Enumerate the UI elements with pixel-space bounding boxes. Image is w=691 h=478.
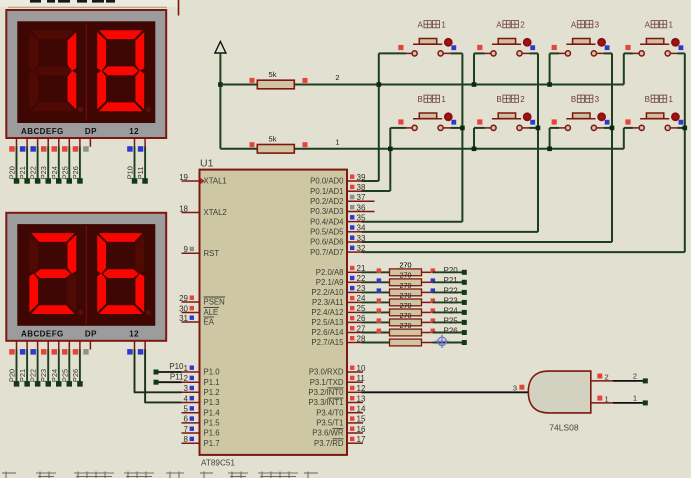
svg-text:2: 2 xyxy=(633,371,637,380)
terminal P22 under display DS1 xyxy=(35,178,41,184)
terminal P20 ladder xyxy=(462,270,467,275)
terminal P24 under display DS2 xyxy=(56,381,62,387)
pin state marker of button SW-B1 xyxy=(398,119,403,124)
wire resistor R7 to terminal xyxy=(433,311,463,313)
resistor R10 270 ohm xyxy=(390,339,433,346)
actuator marker of button SW-A2 xyxy=(523,38,535,50)
actuator marker of button SW-B2 xyxy=(523,112,535,124)
svg-text:P0.0/AD0: P0.0/AD0 xyxy=(310,177,344,186)
svg-text:1: 1 xyxy=(441,20,446,29)
svg-text:11: 11 xyxy=(357,374,366,383)
push button SW-B1 symbol xyxy=(405,113,452,131)
wire B1 left contact to row B xyxy=(390,127,405,129)
label of button SW-A3 xyxy=(571,20,600,29)
junction row B / B2 left xyxy=(472,147,477,152)
wire display DS2 segment C to terminal P22 xyxy=(37,349,39,382)
terminal P11 at U1 xyxy=(154,380,159,385)
svg-text:P3.3/INT1: P3.3/INT1 xyxy=(308,398,343,407)
svg-text:P1.4: P1.4 xyxy=(204,408,221,417)
terminal P21 under display DS1 xyxy=(24,178,30,184)
wire row A (net 2) horizontal xyxy=(220,84,623,86)
wire A1 left contact to row A xyxy=(379,52,406,54)
svg-text:P22: P22 xyxy=(29,369,38,382)
terminal P24 ladder xyxy=(462,310,467,315)
wire display DS2 segment A to terminal P20 xyxy=(16,349,18,382)
cropped caption text at bottom edge xyxy=(2,472,318,478)
junction column 4 right / row B button xyxy=(683,126,688,131)
resistor R7 270 ohm xyxy=(390,309,433,316)
marker squares of R7 xyxy=(377,308,436,313)
IC U1 AT89C51 body xyxy=(200,170,348,455)
svg-text:12: 12 xyxy=(129,330,139,339)
display DS1 digit right (8) xyxy=(97,30,144,111)
svg-text:P0.2/AD2: P0.2/AD2 xyxy=(310,197,343,206)
svg-text:P22: P22 xyxy=(444,286,459,295)
svg-text:1: 1 xyxy=(633,393,637,402)
terminal P26 under display DS2 xyxy=(77,381,83,387)
svg-text:270: 270 xyxy=(400,291,412,300)
wire resistor R5 to terminal xyxy=(433,291,463,293)
svg-text:P25: P25 xyxy=(60,369,69,382)
svg-text:P26: P26 xyxy=(71,166,80,179)
svg-text:2: 2 xyxy=(520,95,525,104)
marker and number of gate pin 1 xyxy=(597,395,608,404)
pin state marker of button SW-B3 xyxy=(552,119,557,124)
terminal P10 at U1 xyxy=(154,370,159,375)
wire to U1 pin 39 xyxy=(362,180,379,182)
U1 left pin names xyxy=(204,177,227,448)
terminal P23 under display DS2 xyxy=(46,381,52,387)
label of button SW-A1 xyxy=(418,20,447,29)
svg-text:P2.4/A12: P2.4/A12 xyxy=(311,308,343,317)
lighter band at top-left xyxy=(0,0,178,7)
wire column 3 right contacts to U1 P0.6 xyxy=(604,52,612,54)
svg-text:P22: P22 xyxy=(29,166,38,179)
svg-text:P1.1: P1.1 xyxy=(204,378,220,387)
power symbol VCC arrow xyxy=(215,42,226,54)
junction row A / A3 left xyxy=(547,82,552,87)
svg-text:XTAL1: XTAL1 xyxy=(204,177,227,186)
svg-text:7: 7 xyxy=(184,425,189,434)
pin state marker of button SW-A1 xyxy=(398,45,403,50)
wire gate pin 2 to terminal net 2 xyxy=(613,380,643,382)
display DS2 decimal point dots xyxy=(78,310,151,315)
svg-text:1: 1 xyxy=(441,95,446,104)
gate input pin 2 stub xyxy=(591,380,613,382)
svg-text:P3.7/RD: P3.7/RD xyxy=(314,439,344,448)
display DS2 segment letter labels xyxy=(21,330,139,339)
push button SW-B4 symbol xyxy=(632,113,679,131)
display DS2 digit divider xyxy=(85,226,87,324)
wire U1 pin 28 to resistor R10 xyxy=(362,342,390,344)
marker squares of R8 xyxy=(377,318,436,323)
svg-text:P0.7/AD7: P0.7/AD7 xyxy=(310,248,343,257)
svg-text:P1.0: P1.0 xyxy=(204,368,221,377)
svg-text:P3.1/TXD: P3.1/TXD xyxy=(310,378,344,387)
pin state marker of button SW-A2 xyxy=(477,45,482,50)
junction row B / column 1 (pin 38 branch) xyxy=(388,147,393,152)
resistor R2 5k on row B xyxy=(250,135,308,154)
svg-text:P3.5/T1: P3.5/T1 xyxy=(316,419,343,428)
wire column 3 to chip pin xyxy=(362,241,613,243)
svg-text:P1.2: P1.2 xyxy=(204,388,220,397)
svg-text:2: 2 xyxy=(605,373,609,382)
wire gate pin 1 to terminal net 1 xyxy=(613,402,643,404)
label of button SW-B3 xyxy=(571,95,600,104)
wire column 4 to chip pin xyxy=(362,251,685,253)
display DS1 pin stubs and state markers xyxy=(9,138,145,152)
wire U1 pin 26 to resistor R8 xyxy=(362,321,390,323)
svg-text:P1.5: P1.5 xyxy=(204,419,221,428)
svg-text:P23: P23 xyxy=(444,296,459,305)
svg-text:B: B xyxy=(645,95,650,104)
push button SW-A2 symbol xyxy=(484,39,531,57)
actuator marker of button SW-B1 xyxy=(444,112,456,124)
svg-text:A: A xyxy=(418,20,424,29)
junction VCC / row A xyxy=(218,82,223,87)
wire A2 left contact to row A xyxy=(474,52,485,54)
pin state marker of button SW-A3 xyxy=(552,45,557,50)
wire display DS1 segment F to terminal P25 xyxy=(68,147,70,180)
svg-text:19: 19 xyxy=(179,173,188,182)
svg-text:34: 34 xyxy=(357,224,366,233)
svg-text:3: 3 xyxy=(513,384,517,393)
resistor R9 270 ohm xyxy=(390,329,433,336)
svg-text:XTAL2: XTAL2 xyxy=(204,208,227,217)
svg-text:3: 3 xyxy=(595,95,600,104)
svg-text:P0.3/AD3: P0.3/AD3 xyxy=(310,207,343,216)
wire display DS1 pin 2 to terminal P11 xyxy=(144,147,146,180)
wire display 2 pin 1 to U1 P1.2 xyxy=(134,349,136,392)
terminal P22 ladder xyxy=(462,290,467,295)
svg-text:6: 6 xyxy=(184,415,189,424)
faint horizontal artifact line above display 1 xyxy=(8,6,167,8)
svg-text:P1.6: P1.6 xyxy=(204,429,220,438)
svg-text:1: 1 xyxy=(668,20,673,29)
wire column 2 to chip pin xyxy=(362,231,539,233)
svg-text:P3.0/RXD: P3.0/RXD xyxy=(309,368,344,377)
svg-text:37: 37 xyxy=(357,193,366,202)
svg-text:P3.6/WR: P3.6/WR xyxy=(312,429,344,438)
terminal P10 under display DS1 xyxy=(132,178,138,184)
terminal P24 under display DS1 xyxy=(56,178,62,184)
terminal P23 ladder xyxy=(462,300,467,305)
resistor R8 270 ohm xyxy=(390,319,433,326)
svg-text:P2.0/A8: P2.0/A8 xyxy=(316,268,344,277)
wire B3 left contact to row B xyxy=(550,127,559,129)
AND gate U2 74LS08 (mirrored) xyxy=(528,371,591,413)
marker at gate output xyxy=(519,385,524,390)
wire display DS1 segment G to terminal P26 xyxy=(79,147,81,180)
svg-text:P23: P23 xyxy=(39,166,48,179)
svg-text:270: 270 xyxy=(400,311,412,320)
wire resistor R6 to terminal xyxy=(433,301,463,303)
svg-text:P26: P26 xyxy=(71,369,80,382)
junction column 1 right / row B button xyxy=(460,126,465,131)
svg-text:P11: P11 xyxy=(170,372,184,381)
svg-text:P24: P24 xyxy=(50,369,59,382)
svg-text:P20: P20 xyxy=(444,266,459,275)
svg-text:P25: P25 xyxy=(60,166,69,179)
resistor R6 270 ohm xyxy=(390,299,433,306)
marker squares of R9 xyxy=(377,329,436,334)
svg-text:PSEN: PSEN xyxy=(204,298,225,307)
terminal P21 under display DS2 xyxy=(24,381,30,387)
pin state marker of button SW-A4 xyxy=(625,45,630,50)
svg-text:AT89C51: AT89C51 xyxy=(201,459,235,468)
svg-text:ALE: ALE xyxy=(204,308,219,317)
display DS2 digit right (6) xyxy=(97,233,144,314)
terminal P26 ladder xyxy=(462,330,467,335)
wire U1 pin 22 to resistor R4 xyxy=(362,281,390,283)
actuator marker of button SW-A1 xyxy=(444,38,456,50)
label of button SW-B4 xyxy=(645,95,674,104)
svg-text:38: 38 xyxy=(357,183,366,192)
svg-text:270: 270 xyxy=(400,261,412,270)
svg-text:32: 32 xyxy=(357,244,366,253)
wire display DS2 segment G to terminal P26 xyxy=(79,349,81,382)
display DS1 decimal point dots xyxy=(78,107,151,112)
XTAL1 pin arrow xyxy=(201,178,206,184)
terminal P26 under display DS1 xyxy=(77,178,83,184)
svg-text:A: A xyxy=(645,20,651,29)
svg-text:P0.4/AD4: P0.4/AD4 xyxy=(310,217,344,226)
wire column 1 right contacts to U1 P0.5 xyxy=(451,52,463,54)
svg-text:17: 17 xyxy=(357,435,366,444)
svg-text:8: 8 xyxy=(184,435,189,444)
svg-text:31: 31 xyxy=(179,314,188,323)
svg-text:3: 3 xyxy=(184,384,189,393)
display DS2 pin stubs and state markers xyxy=(9,341,145,355)
svg-text:B: B xyxy=(496,95,501,104)
display DS1 body xyxy=(6,10,166,138)
svg-text:18: 18 xyxy=(179,204,188,213)
svg-text:P11: P11 xyxy=(136,167,145,180)
label of button SW-B2 xyxy=(496,95,525,104)
svg-text:5k: 5k xyxy=(269,135,277,144)
wire U1 P1.0 to terminal P10 xyxy=(156,371,182,373)
actuator marker of button SW-A4 xyxy=(671,38,683,50)
svg-text:P1.7: P1.7 xyxy=(204,439,220,448)
wire display DS1 pin 1 to terminal P10 xyxy=(134,147,136,180)
svg-text:A: A xyxy=(571,20,577,29)
marker squares of R3 xyxy=(377,268,436,273)
display DS2 digit left (2) xyxy=(29,233,76,314)
wire display DS2 segment B to terminal P21 xyxy=(26,349,28,382)
svg-text:2: 2 xyxy=(184,374,189,383)
junction row A / A2 left xyxy=(472,82,477,87)
svg-text:B: B xyxy=(571,95,576,104)
resistor R1 5k on row A xyxy=(250,70,308,89)
wire display 2 pin 2 to U1 P1.3 xyxy=(144,349,146,402)
wire display DS1 segment E to terminal P24 xyxy=(58,147,60,180)
wire resistor R4 to terminal xyxy=(433,281,463,283)
svg-text:P21: P21 xyxy=(18,369,27,382)
wire column 2 right contacts to U1 P0.4 xyxy=(530,52,539,54)
svg-text:EA: EA xyxy=(204,318,215,327)
marker squares of R6 xyxy=(377,298,436,303)
svg-text:ABCDEFG: ABCDEFG xyxy=(21,330,64,339)
actuator marker of button SW-A3 xyxy=(597,38,609,50)
svg-text:P2.5/A13: P2.5/A13 xyxy=(311,318,343,327)
svg-text:P23: P23 xyxy=(39,369,48,382)
svg-text:B: B xyxy=(418,95,423,104)
wire display DS2 segment D to terminal P23 xyxy=(47,349,49,382)
wire resistor R10 to terminal xyxy=(433,342,463,344)
svg-text:P0.1/AD1: P0.1/AD1 xyxy=(310,187,343,196)
wire display DS1 segment B to terminal P21 xyxy=(26,147,28,180)
svg-text:P25: P25 xyxy=(444,316,459,325)
label of button SW-B1 xyxy=(418,95,447,104)
wire A4 left contact to row A xyxy=(624,52,633,54)
svg-text:P1.3: P1.3 xyxy=(204,398,220,407)
terminal P25 under display DS2 xyxy=(67,381,73,387)
svg-text:3: 3 xyxy=(595,20,600,29)
svg-text:270: 270 xyxy=(400,281,412,290)
svg-text:ABCDEFG: ABCDEFG xyxy=(21,127,64,136)
svg-text:30: 30 xyxy=(179,304,188,313)
svg-text:P3.2/INT0: P3.2/INT0 xyxy=(308,388,344,397)
svg-text:P26: P26 xyxy=(444,326,459,335)
terminal P25 under display DS1 xyxy=(67,178,73,184)
gate input pin 1 stub xyxy=(591,402,613,404)
svg-text:9: 9 xyxy=(184,245,189,254)
svg-text:P24: P24 xyxy=(50,166,59,179)
U1 right pin stubs, numbers and markers xyxy=(347,173,375,444)
svg-text:P2.7/A15: P2.7/A15 xyxy=(311,338,344,347)
label of button SW-A2 xyxy=(496,20,525,29)
actuator marker of button SW-B3 xyxy=(597,112,609,124)
terminal P21 ladder xyxy=(462,280,467,285)
U1 left pin stubs, numbers and markers xyxy=(179,173,199,444)
U1 right pin names xyxy=(308,177,344,448)
display DS2 body xyxy=(6,213,166,341)
terminal pin28 ladder xyxy=(462,340,467,345)
svg-text:P10: P10 xyxy=(169,362,184,371)
wire A3 left contact to row A xyxy=(550,52,559,54)
label of button SW-A4 xyxy=(645,20,674,29)
svg-text:P0.5/AD5: P0.5/AD5 xyxy=(310,228,344,237)
junction column 2 right / row B button xyxy=(536,126,541,131)
svg-text:1: 1 xyxy=(335,137,339,146)
svg-text:13: 13 xyxy=(357,394,366,403)
svg-text:74LS08: 74LS08 xyxy=(549,423,579,433)
svg-text:P21: P21 xyxy=(444,276,459,285)
svg-text:1: 1 xyxy=(605,395,609,404)
marker squares of R4 xyxy=(377,278,436,283)
wire U1 pin 27 to resistor R9 xyxy=(362,332,390,334)
wire B2 left contact to row B xyxy=(474,127,485,129)
svg-text:A: A xyxy=(496,20,502,29)
display DS1 digit left (1) xyxy=(29,30,76,111)
svg-text:10: 10 xyxy=(357,364,366,373)
terminal net 1 xyxy=(643,400,648,405)
svg-text:4: 4 xyxy=(184,394,189,403)
resistor R3 270 ohm xyxy=(390,269,433,276)
svg-text:P3.4/T0: P3.4/T0 xyxy=(316,408,344,417)
push button SW-A3 symbol xyxy=(558,39,605,57)
resistor R5 270 ohm xyxy=(390,289,433,296)
svg-text:P20: P20 xyxy=(8,166,17,179)
wire row B (net 1) horizontal xyxy=(220,148,623,150)
marker squares of R5 xyxy=(377,288,436,293)
push button SW-A4 symbol xyxy=(632,39,679,57)
svg-text:DP: DP xyxy=(85,127,97,136)
svg-text:RST: RST xyxy=(204,249,220,258)
junction row B / B3 left xyxy=(547,147,552,152)
pin state marker of button SW-B4 xyxy=(625,119,630,124)
wire column 1 to chip pin xyxy=(362,221,463,223)
svg-text:DP: DP xyxy=(85,330,97,339)
cropped text remnants at top edge xyxy=(30,0,115,3)
svg-text:36: 36 xyxy=(357,203,366,212)
resistor R4 270 ohm xyxy=(390,279,433,286)
svg-text:14: 14 xyxy=(357,405,366,414)
terminal P11 under display DS1 xyxy=(142,178,148,184)
junction row A / column 1 (pin 39 branch) xyxy=(377,82,382,87)
svg-text:16: 16 xyxy=(357,425,366,434)
wire U1 pin 23 to resistor R5 xyxy=(362,291,390,293)
svg-text:U1: U1 xyxy=(200,158,214,170)
wire U1 pin 24 to resistor R6 xyxy=(362,301,390,303)
svg-text:P2.2/A10: P2.2/A10 xyxy=(311,288,344,297)
svg-text:P2.6/A14: P2.6/A14 xyxy=(311,328,344,337)
wire display DS1 segment A to terminal P20 xyxy=(16,147,18,180)
svg-text:P20: P20 xyxy=(8,369,17,382)
svg-text:P24: P24 xyxy=(444,306,459,315)
svg-text:270: 270 xyxy=(400,301,412,310)
wire display DS2 segment F to terminal P25 xyxy=(68,349,70,382)
wire resistor R3 to terminal xyxy=(433,271,463,273)
pin state marker of button SW-B2 xyxy=(477,119,482,124)
wire U1 pin 21 to resistor R3 xyxy=(362,271,390,273)
svg-text:29: 29 xyxy=(179,294,188,303)
terminal P23 under display DS1 xyxy=(46,178,52,184)
svg-text:12: 12 xyxy=(129,127,139,136)
svg-text:P0.6/AD6: P0.6/AD6 xyxy=(310,238,343,247)
origin crosshair marker xyxy=(435,335,448,348)
display DS1 digit divider xyxy=(85,23,87,121)
wire display DS2 segment E to terminal P24 xyxy=(58,349,60,382)
svg-text:1: 1 xyxy=(668,95,673,104)
cropped red wire stub at top edge xyxy=(178,0,180,16)
display DS1 segment letter labels xyxy=(21,127,139,136)
push button SW-B2 symbol xyxy=(484,113,531,131)
svg-text:P10: P10 xyxy=(126,166,135,179)
terminal P20 under display DS2 xyxy=(14,381,19,387)
svg-text:5k: 5k xyxy=(269,70,277,79)
svg-text:5: 5 xyxy=(184,405,189,414)
wire column 4 right contacts to U1 P0.7 xyxy=(678,52,685,54)
svg-text:15: 15 xyxy=(357,415,366,424)
svg-text:270: 270 xyxy=(400,271,412,280)
svg-text:P2.3/A11: P2.3/A11 xyxy=(312,298,344,307)
wire resistor R9 to terminal xyxy=(433,332,463,334)
svg-text:270: 270 xyxy=(400,321,412,330)
terminal P20 under display DS1 xyxy=(14,178,19,184)
terminal P25 ladder xyxy=(462,320,467,325)
wire resistor R8 to terminal xyxy=(433,321,463,323)
svg-text:33: 33 xyxy=(357,234,366,243)
svg-text:35: 35 xyxy=(357,213,366,222)
push button SW-B3 symbol xyxy=(558,113,605,131)
svg-text:1: 1 xyxy=(184,364,189,373)
wire U1 pin 25 to resistor R7 xyxy=(362,311,390,313)
wire to U1 pin 38 xyxy=(362,190,391,192)
wire display DS1 segment D to terminal P23 xyxy=(47,147,49,180)
push button SW-A1 symbol xyxy=(405,39,452,57)
wire B4 left contact to row B xyxy=(624,127,633,129)
